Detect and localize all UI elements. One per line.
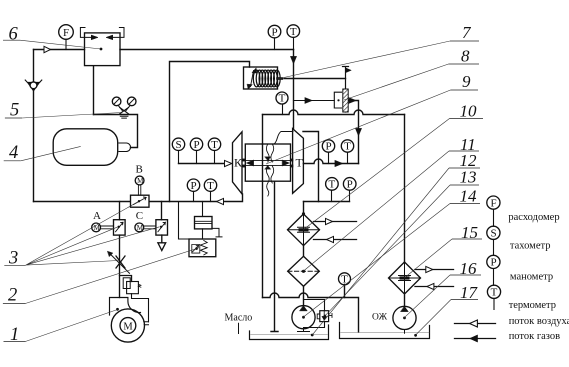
blower 1 motor circle M (120, 318, 136, 334)
solenoid valve A (114, 220, 126, 235)
wire: manifold y=114.5 to receiver port (94, 115, 138, 148)
leader of label 7 (277, 41, 450, 79)
leader of label 11 (304, 151, 450, 271)
gauge T oil return (339, 273, 351, 285)
wire: cooler 11 down to oil pump with jump over oil return (303, 286, 305, 305)
svg-text:М: М (137, 224, 144, 232)
svg-text:T: T (279, 93, 286, 105)
arrow: filled down arrow on orifice drop x=358.8 (355, 129, 361, 137)
svg-text:6: 6 (9, 25, 19, 45)
svg-text:F: F (490, 197, 496, 209)
svg-text:Масло: Масло (225, 313, 253, 324)
svg-text:T: T (344, 141, 351, 153)
arrow: filled arrow on orifice outlet right of bar (349, 98, 357, 104)
pressure gauges block 5: two slashed circles (112, 97, 121, 106)
dryer 6 internal arrows (92, 35, 113, 40)
turbocharger 9: shaft lines (245, 161, 290, 166)
turbocharger 9: shaft break wavy lines (266, 144, 273, 196)
oil cooler 11 diamond (288, 256, 320, 286)
dryer box 6 (85, 33, 121, 66)
wire: oil drain 1 through housing down to return line (262, 144, 264, 298)
svg-text:C: C (136, 210, 143, 222)
gauge T bus (compressor outlet) (204, 179, 216, 191)
wire: main vertical gas line x=293.5 down to turbine inlet (293, 50, 295, 129)
turbocharger 9: bearing housing (245, 144, 290, 181)
svg-text:T: T (491, 287, 498, 299)
svg-text:М: М (123, 321, 133, 332)
oil tank (Масло) (250, 325, 329, 340)
svg-text:9: 9 (462, 72, 471, 91)
svg-text:A: A (93, 210, 101, 222)
svg-text:T: T (290, 26, 297, 38)
coolant radiator 15 diamond (389, 262, 421, 294)
arrow: open arrow on top air line (44, 46, 51, 52)
heater 7 coil (253, 70, 280, 87)
svg-text:T: T (341, 274, 348, 286)
oil pump 14 suction stem and strainer (298, 329, 310, 332)
leader of label 10 (304, 119, 450, 230)
node: dot at cooler 11 center (302, 270, 305, 273)
wire: oil header y=114.5 with jumps over x=293.5 and x=358.5 (263, 110, 405, 115)
wire: heater feed line from bus up and over (170, 62, 250, 202)
svg-text:F: F (63, 27, 69, 39)
svg-text:манометр: манометр (510, 271, 553, 282)
legend thermometer symbol T (487, 285, 500, 298)
svg-text:T: T (329, 179, 336, 191)
gauge P turbine inlet (322, 140, 334, 152)
svg-text:16: 16 (460, 259, 478, 278)
svg-text:17: 17 (460, 283, 479, 302)
leader of label 12 (312, 168, 449, 335)
orifice 8 hatched bar (343, 89, 348, 112)
svg-text:2: 2 (8, 286, 17, 306)
leader of label 14 (303, 204, 450, 318)
legend air flow arrow (open) (455, 323, 496, 325)
svg-text:1: 1 (10, 325, 19, 345)
gauge P bus (compressor outlet) (187, 179, 199, 191)
pump bypass valve 13 (320, 311, 329, 322)
svg-text:ОЖ: ОЖ (372, 313, 388, 323)
svg-text:М: М (137, 177, 144, 185)
svg-text:S: S (490, 228, 496, 240)
flowmeter F gauge (59, 25, 74, 40)
leader of label 9 (266, 90, 451, 164)
svg-text:P: P (325, 141, 331, 153)
arrow: filled arrow into orifice bracket (305, 98, 313, 104)
svg-text:поток воздуха: поток воздуха (509, 316, 569, 327)
leader of label 5 (22, 113, 122, 119)
wire: turbine exhaust duct (303, 132, 319, 202)
svg-text:P: P (190, 180, 196, 192)
legend manometer symbol P (487, 255, 500, 268)
svg-text:поток газов: поток газов (509, 331, 560, 342)
wire: lower distribution bus y=201.5 ending up into compressor inlet (34, 194, 243, 202)
node: leader dot on blower casing (116, 308, 119, 311)
svg-text:P: P (347, 179, 353, 191)
gauge T turbine outlet (326, 178, 339, 191)
solenoid valve C (156, 220, 168, 235)
leader of label 8 (344, 64, 449, 100)
svg-text:тахометр: тахометр (510, 241, 551, 252)
oil pump 14 (292, 306, 315, 329)
wire: right vertical x=404.5 down to radiator 15 (404, 115, 406, 263)
dryer 6 inlet arrow tails (80, 28, 124, 38)
wire: heater outlet y=78.5 to orifice 8 (284, 78, 346, 80)
coolant tank (ОЖ) (340, 323, 430, 339)
gauge T turbine inlet (341, 140, 353, 152)
gauge S compressor inlet (172, 138, 184, 150)
valve A stem from bus (119, 202, 121, 220)
valve C stem from bus (161, 202, 163, 220)
regulator 2 feed from bus (179, 202, 190, 240)
leader of label 13 (325, 185, 450, 316)
bypass relief valve on blower branch (120, 276, 132, 282)
leader of label 2 (26, 249, 197, 304)
node: dot on valve 13 (324, 315, 327, 318)
leader of label 15 (405, 239, 452, 278)
svg-text:15: 15 (461, 223, 478, 242)
valve manifold of block 5 (118, 105, 130, 110)
wire: oil feed drop into bearing housing (262, 115, 264, 145)
node: dot at radiator 15 center (403, 277, 406, 280)
electric heater 7 box (244, 67, 278, 89)
wire: exhaust measuring line y=201.5 (304, 201, 350, 203)
svg-text:Т: Т (296, 156, 304, 170)
leaders of label 3 (26, 202, 160, 265)
valve C motor M (135, 223, 144, 232)
wire: left frame vertical x=33.5 (33, 50, 35, 202)
heater 7 electric leads with arrows (251, 71, 254, 87)
svg-text:P: P (271, 26, 277, 38)
wire: coolant pump to radiator stem (404, 295, 406, 306)
solenoid valve B on bus (131, 195, 150, 207)
blower 1 outlet notch (144, 322, 149, 325)
node: dot inside dryer 6 (100, 48, 103, 51)
svg-text:расходомер: расходомер (508, 212, 559, 223)
wire: oil temperature gauge stem (344, 284, 346, 297)
legend connecting stems (493, 209, 496, 309)
wire: oil drain 2 into tank with end tick (271, 182, 278, 332)
svg-text:S: S (175, 139, 181, 151)
gas cooler 10 diamond (288, 214, 320, 246)
svg-text:8: 8 (461, 47, 470, 66)
turbocharger 9: compressor wheel K (233, 132, 243, 194)
turbocharger 9: shaft end arrows (246, 160, 289, 166)
wire: main top air line y=49 from left frame to node at x=293.5 (34, 49, 294, 51)
receiver 4 (53, 129, 118, 166)
wire: compressor inlet measuring line y=163.5 with open arrow (179, 163, 231, 165)
svg-text:B: B (136, 164, 143, 176)
wire: oil return line y=297.5 with jumps at x=274.5 and x=303 (263, 293, 359, 332)
gauge T heater outlet (276, 92, 288, 104)
cooler 10 air in line with open arrow (314, 239, 357, 241)
valve A motor M (92, 223, 101, 232)
leader of label 17 (416, 300, 451, 336)
oil cooler 11 dashed mid line (288, 270, 320, 272)
legend gas flow arrow (filled) (455, 338, 496, 340)
valve C vent triangle (158, 235, 166, 250)
turbocharger 9: housing collar to turbine (274, 132, 293, 145)
pressure regulator 2: spring-loaded valve body (189, 239, 216, 257)
blower 1 volute casing (111, 309, 144, 342)
node: junction dot at cooler 10 inlet (302, 212, 305, 215)
gauge T top center (287, 25, 300, 38)
leader of label 16 (404, 275, 450, 318)
gas cooler 10 vertical pass line (303, 214, 305, 246)
valve B motor M (135, 176, 144, 185)
gauge P turbine outlet (343, 178, 356, 191)
node: leader dot in oil tank (311, 334, 314, 337)
orifice 8 sampling bracket (334, 92, 341, 108)
svg-text:10: 10 (460, 102, 478, 121)
legend flowmeter symbol F (487, 196, 500, 209)
svg-text:К: К (234, 156, 243, 170)
svg-text:14: 14 (460, 187, 478, 206)
measuring orifice 8: vertical duct with top cap and flag (343, 67, 349, 113)
svg-text:13: 13 (460, 168, 477, 187)
gas cooler 10 mid line with core ticks (288, 227, 320, 232)
gauge T compressor inlet (208, 138, 220, 150)
cooler 10 air out line with open arrow (314, 221, 357, 223)
arrow: filled down arrow on gas line x=293.5 (290, 57, 296, 65)
leader of label 1 (26, 310, 118, 342)
leader of label 4 (21, 146, 81, 160)
underlines of number labels (3, 40, 26, 341)
legend tachometer symbol S (487, 226, 500, 239)
gauge P top center (268, 25, 281, 38)
radiator 15 air in line with open arrow (415, 286, 454, 288)
svg-text:T: T (207, 180, 214, 192)
arrow: open arrow into compressor K (225, 160, 232, 166)
wire: dryer (6) bottom stem to manifold (93, 66, 95, 114)
receiver 4 outlet port (119, 143, 131, 152)
wire: turbine measuring line y=163.5 with jump over exhaust duct (303, 159, 358, 164)
turbocharger 9: center bearing arrows (265, 157, 271, 169)
check valve on left frame (27, 82, 39, 91)
leader of label 6 (20, 40, 101, 49)
svg-text:5: 5 (10, 101, 19, 121)
pressure regulator 2: pilot cylinder (202, 202, 204, 217)
wire: orifice outlet down to turbine measuring line (346, 101, 359, 164)
radiator 15 air out line with open arrow (415, 269, 454, 271)
blower line from bus through valve A down (119, 235, 121, 297)
wire: exhaust drop into gas cooler 10 (303, 202, 305, 215)
valve 13 bypass piping (304, 300, 325, 328)
turbocharger 9: shaft stub blocks (242, 159, 293, 168)
shutoff valve (X) on blower line (116, 256, 125, 268)
oil tank label tick (238, 323, 240, 333)
gauge P compressor inlet (190, 138, 202, 150)
node: leader dot in coolant tank (414, 334, 417, 337)
wire: cooler 10 to cooler 11 connector (303, 245, 305, 256)
svg-text:термометр: термометр (509, 300, 556, 311)
svg-text:3: 3 (8, 249, 18, 269)
coolant pump 16 suction stem (404, 330, 406, 334)
arrow: open arrow on bus pointing left (217, 198, 224, 204)
arrow: filled right arrow on turbine measuring line (335, 160, 343, 166)
coolant pump 16 (393, 306, 416, 329)
svg-text:4: 4 (9, 143, 18, 163)
turbocharger 9: turbine wheel T (293, 129, 304, 194)
svg-text:P: P (490, 257, 496, 269)
svg-text:P: P (193, 139, 199, 151)
svg-text:T: T (211, 139, 218, 151)
